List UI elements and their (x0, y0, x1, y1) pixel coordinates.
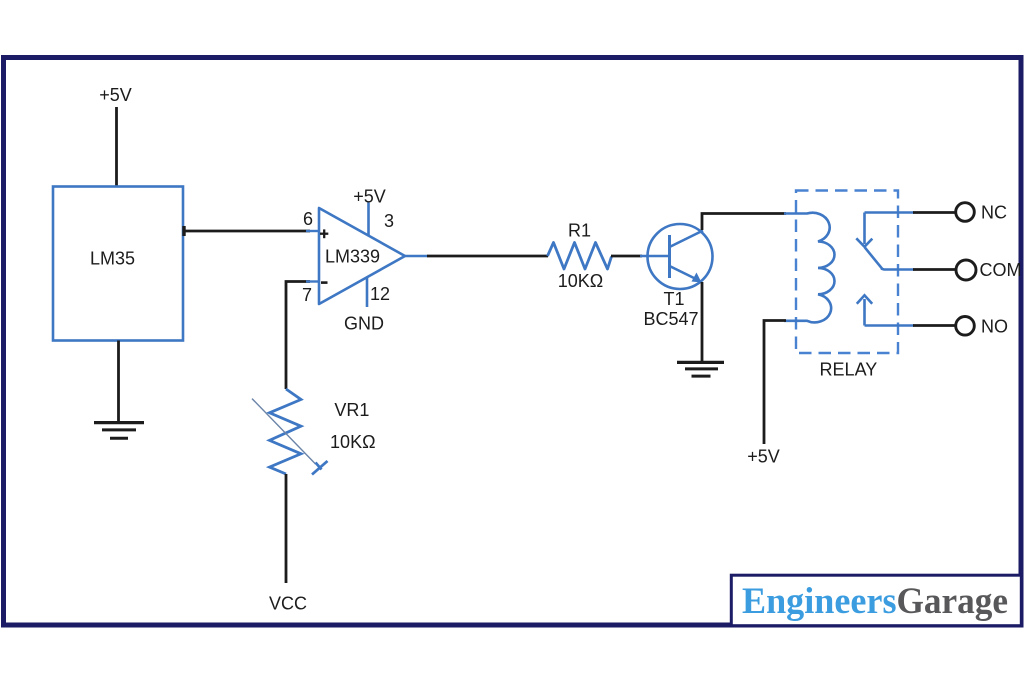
relay dashed box (796, 191, 898, 354)
terminal NO circle (956, 317, 975, 336)
svg-text:LM35: LM35 (90, 249, 135, 269)
svg-text:LM339: LM339 (325, 247, 380, 267)
svg-text:VCC: VCC (269, 594, 307, 614)
svg-text:RELAY: RELAY (820, 359, 878, 379)
svg-text:+5V: +5V (353, 186, 386, 206)
wire LM35 output to op-amp + input (183, 230, 310, 233)
relay switch arm (865, 247, 882, 268)
svg-text:7: 7 (302, 285, 312, 305)
wire T1 emitter to ground (701, 282, 704, 362)
svg-text:BC547: BC547 (643, 309, 698, 329)
wire op-amp output to R1 (427, 255, 548, 258)
NC contact arrow (down) (863, 213, 866, 245)
op-amp output stub (404, 255, 428, 258)
T1 base lead (blue) (640, 255, 669, 258)
wire stub (blue) at + input (306, 230, 319, 232)
potentiometer VR1 zigzag (270, 389, 302, 474)
svg-text:+5V: +5V (99, 85, 132, 105)
pin 12 GND line from op-amp (366, 278, 369, 308)
wire op-amp - input (L shape from VR1) (286, 282, 310, 390)
transistor Q1 T1 BC547 circle (648, 224, 713, 289)
NO contact wire (865, 324, 915, 327)
label + (noninverting) (320, 229, 328, 238)
terminal COM circle (956, 260, 976, 280)
pin tick at LM35 output (182, 226, 185, 236)
svg-text:10KΩ: 10KΩ (558, 271, 603, 291)
pin 3 +5V line into op-amp (367, 203, 370, 237)
wire T1 collector up and to relay coil (702, 214, 786, 231)
svg-text:6: 6 (303, 209, 313, 229)
op-amp U1 LM339 triangle (319, 208, 405, 304)
sensor LM35 box (53, 187, 183, 341)
resistor R1 zigzag (548, 243, 612, 270)
label - (inverting) (321, 281, 328, 284)
wire stub (blue) at - input (306, 280, 319, 282)
svg-text:EngineersGarage: EngineersGarage (742, 581, 1008, 622)
wire R1 to T1 base (611, 255, 642, 258)
wire LM35 bottom to ground (117, 341, 120, 423)
svg-text:NC: NC (981, 203, 1007, 223)
VR1 wiper arrow diagonal (252, 399, 316, 464)
svg-text:R1: R1 (568, 220, 591, 240)
svg-text:T1: T1 (663, 289, 684, 309)
svg-text:VR1: VR1 (334, 400, 369, 420)
svg-text:10KΩ: 10KΩ (330, 432, 375, 452)
logo box EngineersGarage (731, 575, 1021, 626)
wire +5V to LM35 top (115, 107, 118, 187)
ground (T1 emitter) (677, 362, 724, 376)
svg-text:GND: GND (344, 313, 384, 333)
relay coil (784, 213, 835, 323)
svg-text:12: 12 (370, 284, 390, 304)
svg-text:COM: COM (980, 260, 1022, 280)
COM contact wire (881, 269, 914, 270)
ground (LM35) (94, 423, 144, 439)
svg-text:+5V: +5V (747, 446, 780, 466)
VR1 wiper arrow tip (312, 461, 328, 475)
svg-text:3: 3 (384, 211, 394, 231)
T1 emitter lead with arrow (670, 266, 698, 280)
T1 collector lead (670, 231, 704, 248)
wire VR1 bottom to VCC (285, 474, 288, 583)
wire relay coil bottom to +5V (764, 321, 786, 445)
NO contact arrow (up) (863, 299, 866, 326)
svg-text:NO: NO (981, 316, 1008, 336)
terminal NC circle (956, 203, 975, 222)
relay NC contact wire (865, 211, 915, 214)
T1 base bar (668, 235, 671, 278)
